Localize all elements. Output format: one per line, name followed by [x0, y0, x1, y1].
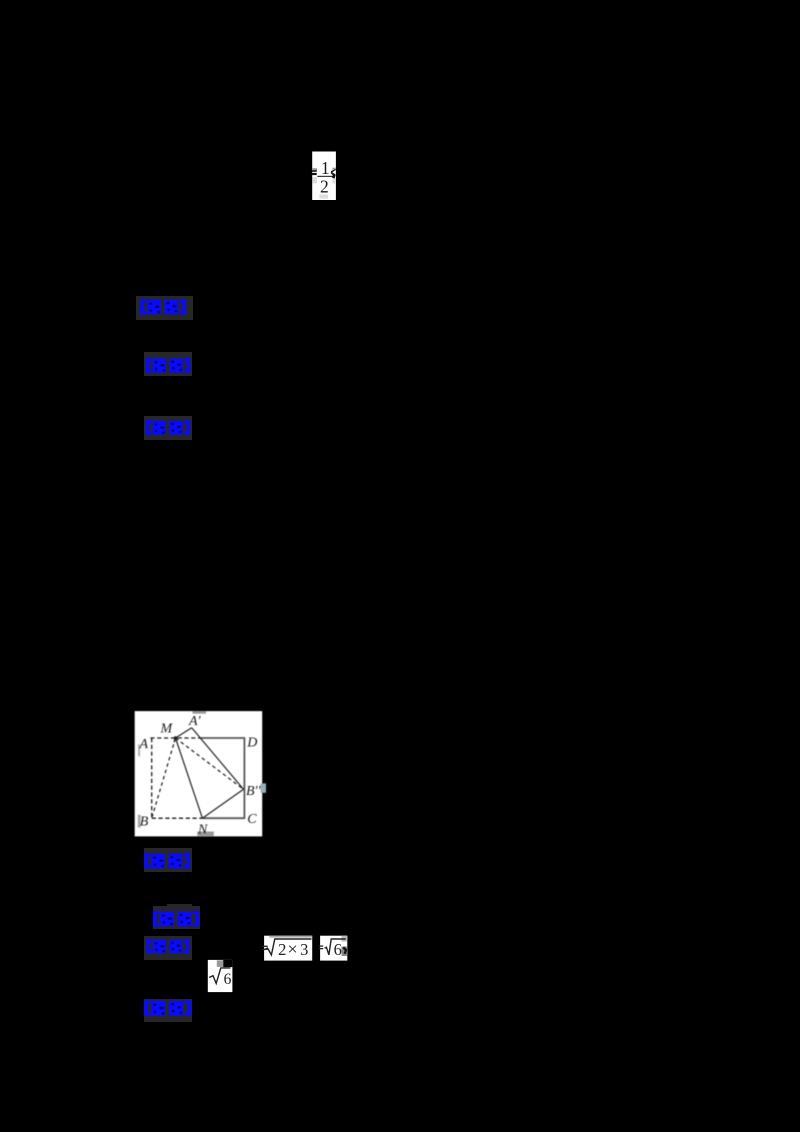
svg-text:6: 6	[224, 971, 232, 988]
blue label 3	[144, 416, 192, 440]
gray bar left of A	[138, 744, 140, 756]
flap edge M to A' solid	[176, 728, 192, 738]
square side BC dashed part B to N	[152, 817, 203, 819]
fold line M to B dashed	[152, 738, 176, 818]
square side BC solid gray part N to C	[202, 817, 244, 819]
svg-text:1: 1	[321, 158, 330, 178]
svg-text:B: B	[140, 815, 149, 830]
square side DC solid gray	[243, 737, 245, 819]
square side AD solid gray part to D	[202, 737, 244, 739]
shared blue glyph pattern	[0, 0, 1, 1]
radical image sqrt(2x3)	[258, 932, 316, 964]
svg-text:A: A	[139, 737, 149, 752]
white image background	[135, 711, 263, 836]
diagonal M to B'' dashed	[176, 738, 244, 789]
svg-text:A′: A′	[188, 714, 202, 729]
svg-text:M: M	[160, 722, 174, 737]
blue label 5	[167, 904, 192, 911]
blue label 1	[136, 296, 193, 320]
svg-text:B′′: B′′	[246, 784, 262, 799]
vertex dot M	[174, 736, 178, 740]
svg-text:3: 3	[300, 940, 308, 959]
gray artifact strip top	[193, 711, 207, 714]
blue label 6	[144, 936, 193, 961]
gray mark right of B''	[261, 783, 266, 792]
radical image =sqrt6,	[316, 932, 352, 964]
blue label 4	[144, 848, 192, 872]
svg-text:C: C	[247, 812, 257, 827]
square side AD dashed (A to M to crossing)	[150, 737, 202, 739]
svg-text:2: 2	[320, 177, 329, 197]
svg-text:6: 6	[334, 940, 342, 959]
blue label 2	[144, 352, 192, 376]
svg-text:2: 2	[278, 940, 286, 959]
geometry diagram image: square ABCD folded along MN	[134, 710, 268, 837]
fraction equation image =1/2,	[306, 150, 340, 202]
svg-text:D: D	[246, 736, 257, 751]
blue label 7	[144, 999, 192, 1022]
square side AB dashed	[151, 738, 153, 818]
flap edge A' to B'' solid	[192, 728, 244, 790]
flap edge N to B'' solid	[202, 789, 243, 818]
fold crease M to N solid	[176, 738, 203, 818]
radical image sqrt6 (second line)	[204, 956, 236, 996]
gray bar left of B	[138, 815, 141, 828]
svg-text:N: N	[197, 823, 208, 837]
svg-text:×: ×	[288, 939, 298, 959]
gray bar below N	[197, 832, 214, 837]
